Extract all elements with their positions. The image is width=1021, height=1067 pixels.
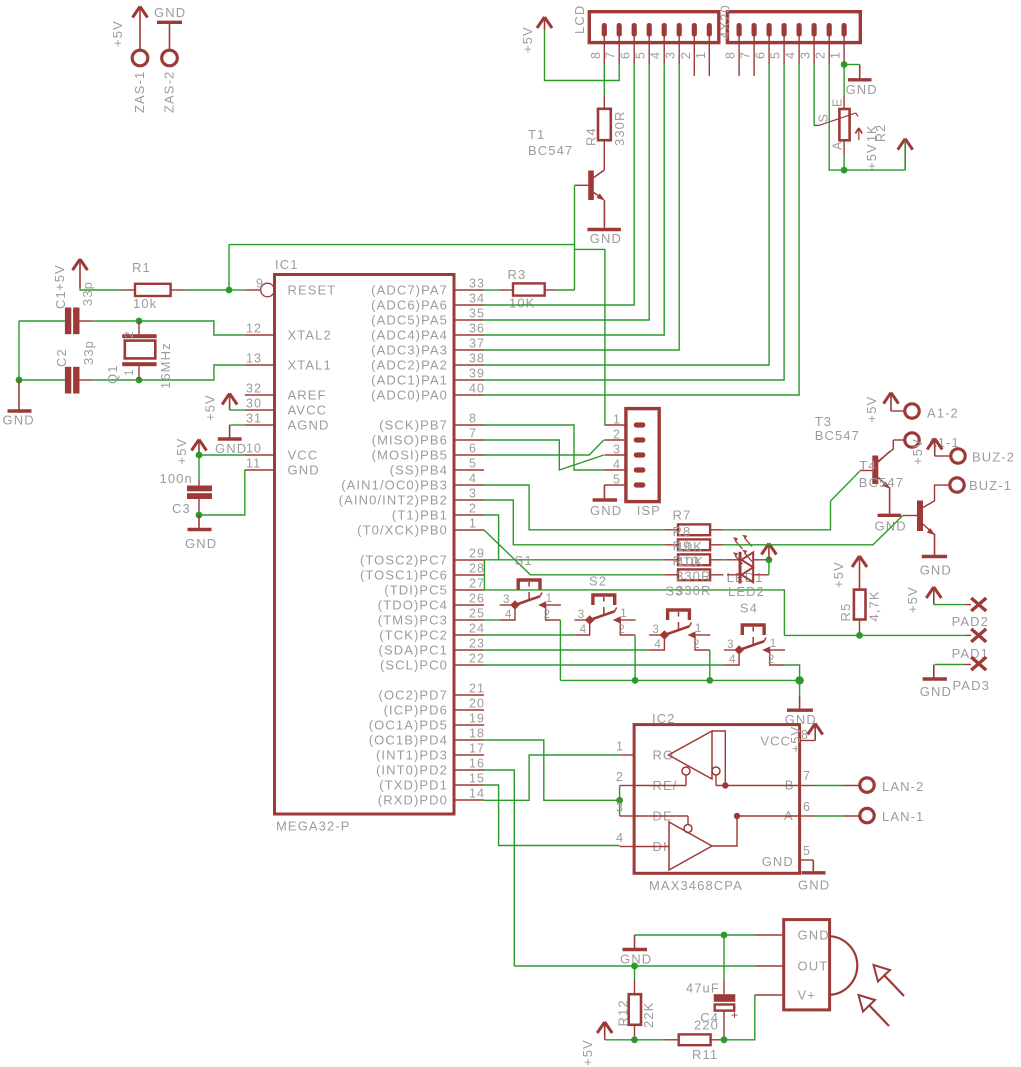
pad ZAS-1 xyxy=(132,50,148,66)
LED LED1 xyxy=(727,559,739,561)
svg-text:E: E xyxy=(831,98,845,107)
wire AVCC xyxy=(230,409,245,411)
svg-text:1: 1 xyxy=(469,517,477,531)
svg-text:(T0/XCK)PB0: (T0/XCK)PB0 xyxy=(357,523,448,538)
resistor R4 330R xyxy=(603,96,605,109)
wire C3 to GND pin 11 xyxy=(196,512,203,519)
svg-text:25: 25 xyxy=(469,607,485,621)
svg-text:8: 8 xyxy=(724,51,738,59)
svg-text:MAX3468CPA: MAX3468CPA xyxy=(649,878,743,893)
svg-text:3: 3 xyxy=(469,487,477,501)
resistor R10 xyxy=(665,574,678,576)
svg-text:14: 14 xyxy=(469,787,485,801)
svg-text:30: 30 xyxy=(246,397,262,411)
power +5V symbol (R1) xyxy=(73,259,88,270)
svg-text:1: 1 xyxy=(694,51,708,59)
svg-text:5: 5 xyxy=(634,51,648,59)
svg-text:4: 4 xyxy=(654,639,662,651)
ground GND (IC2 pin5) xyxy=(812,860,814,871)
wire LCD pin1 to node xyxy=(841,61,848,68)
svg-text:8: 8 xyxy=(589,51,603,59)
svg-text:GND: GND xyxy=(762,854,794,869)
svg-text:(RXD)PD0: (RXD)PD0 xyxy=(378,793,448,808)
svg-text:31: 31 xyxy=(246,412,262,426)
IC2 pin 7 B xyxy=(800,785,814,787)
svg-text:(AIN1/OC0)PB3: (AIN1/OC0)PB3 xyxy=(341,478,448,493)
IC1 pin 27 (TDI)PC5 xyxy=(454,589,484,591)
IC1 pin 29 (TOSC2)PC7 xyxy=(454,559,484,561)
ISP pin 5 xyxy=(604,484,626,486)
svg-text:GND: GND xyxy=(798,928,830,943)
svg-text:GND: GND xyxy=(875,519,907,534)
wire R9 to LED1 xyxy=(723,559,727,561)
IC1 pin 20 (ICP)PD6 xyxy=(454,709,484,711)
svg-text:(ADC6)PA6: (ADC6)PA6 xyxy=(371,298,448,313)
LCD pin 4 (left group) xyxy=(662,23,667,37)
svg-text:2: 2 xyxy=(544,609,552,621)
svg-text:12: 12 xyxy=(246,322,262,336)
svg-text:35: 35 xyxy=(469,307,485,321)
IC1 pin 30 AVCC xyxy=(245,409,275,411)
svg-text:MEGA32-P: MEGA32-P xyxy=(276,819,351,834)
svg-text:29: 29 xyxy=(469,547,485,561)
svg-text:7: 7 xyxy=(739,51,753,59)
node LED junction with +5V xyxy=(766,556,773,563)
svg-text:2: 2 xyxy=(679,51,693,59)
svg-text:PAD2: PAD2 xyxy=(952,614,989,629)
svg-text:(AIN0/INT2)PB2: (AIN0/INT2)PB2 xyxy=(339,493,448,508)
svg-text:C2: C2 xyxy=(54,348,69,367)
wire PB2 to R8 xyxy=(484,500,665,545)
svg-text:+5V: +5V xyxy=(520,26,535,53)
svg-text:(ADC4)PA4: (ADC4)PA4 xyxy=(371,328,448,343)
svg-text:3: 3 xyxy=(664,51,678,59)
LCD pin 1 (right group) xyxy=(842,23,847,37)
svg-text:3: 3 xyxy=(799,51,813,59)
svg-text:(ADC5)PA5: (ADC5)PA5 xyxy=(371,313,448,328)
svg-text:2: 2 xyxy=(814,51,828,59)
svg-text:T1: T1 xyxy=(528,127,545,142)
LCD pin 5 (left group) xyxy=(647,23,652,37)
LCD pin 5 (right group) xyxy=(782,23,787,37)
svg-text:OUT: OUT xyxy=(798,959,829,974)
IR receiver module body xyxy=(755,934,784,936)
svg-text:+5V: +5V xyxy=(864,143,879,170)
svg-text:(TOSC1)PC6: (TOSC1)PC6 xyxy=(360,568,448,583)
IC1 pin 10 VCC xyxy=(245,454,275,456)
LCD pin 2 (left group) xyxy=(692,23,697,37)
svg-text:ISP: ISP xyxy=(637,503,661,518)
svg-text:A1-2: A1-2 xyxy=(927,406,959,421)
svg-text:2: 2 xyxy=(124,331,136,339)
wire R3 to RESET net xyxy=(556,289,575,291)
wire to V+ pin xyxy=(724,995,755,1040)
trimmer R2 1k xyxy=(843,96,845,109)
svg-text:3: 3 xyxy=(616,801,624,815)
svg-text:4X20: 4X20 xyxy=(718,4,733,39)
svg-text:(SDA)PC1: (SDA)PC1 xyxy=(379,643,448,658)
svg-text:XTAL1: XTAL1 xyxy=(288,358,332,373)
transistor T1 BC547 xyxy=(588,171,594,201)
svg-text:1: 1 xyxy=(124,369,136,377)
pad PAD2 with +5V xyxy=(926,587,941,598)
resistor R7 xyxy=(665,529,678,531)
wire PD1 to DI xyxy=(484,785,620,846)
svg-text:(SCL)PC0: (SCL)PC0 xyxy=(380,658,448,673)
svg-text:GND: GND xyxy=(798,878,830,893)
wire PA row 395 to LCD right group xyxy=(484,64,799,395)
svg-text:5: 5 xyxy=(469,457,477,471)
wire PD0 to RO xyxy=(484,755,620,800)
svg-text:4: 4 xyxy=(613,458,621,472)
svg-text:15: 15 xyxy=(469,772,485,786)
wire LCD pin1 to R2 top (E) xyxy=(843,65,845,96)
svg-text:(TOSC2)PC7: (TOSC2)PC7 xyxy=(360,553,448,568)
svg-text:R12: R12 xyxy=(616,999,631,1026)
wire PA row 365 to LCD right group xyxy=(484,64,769,365)
svg-text:(TDO)PC4: (TDO)PC4 xyxy=(378,598,448,613)
crystal Q1 16MHz xyxy=(138,321,140,334)
svg-text:+5V: +5V xyxy=(788,726,803,753)
IC IC2 MAX3468CPA body xyxy=(634,725,800,874)
ISP pin 1 xyxy=(604,424,626,426)
IR LED arrow 2 xyxy=(859,995,876,1012)
svg-text:V+: V+ xyxy=(798,988,816,1003)
pad BUZ-1 xyxy=(950,478,964,492)
svg-text:(INT1)PD3: (INT1)PD3 xyxy=(376,748,448,763)
svg-text:GND: GND xyxy=(590,503,622,518)
resistor R5 4.7k xyxy=(852,556,867,567)
svg-text:22: 22 xyxy=(469,652,485,666)
svg-text:(INT0)PD2: (INT0)PD2 xyxy=(376,763,448,778)
svg-text:2: 2 xyxy=(768,654,776,666)
svg-text:4: 4 xyxy=(616,831,624,845)
svg-text:LAN-1: LAN-1 xyxy=(882,809,924,824)
svg-text:+5V: +5V xyxy=(831,561,846,588)
svg-text:1: 1 xyxy=(620,608,628,620)
IC2 receiver amp xyxy=(669,731,713,779)
wire PB1 to R9 row xyxy=(484,515,499,560)
svg-text:+5V: +5V xyxy=(905,586,920,613)
IC1 pin 26 (TDO)PC4 xyxy=(454,604,484,606)
wire R2 bottom A to +5V rail xyxy=(843,140,845,155)
svg-text:34: 34 xyxy=(469,292,485,306)
svg-text:24: 24 xyxy=(469,622,485,636)
svg-text:GND: GND xyxy=(590,231,622,246)
wire C2 left rail xyxy=(19,321,65,380)
LCD pin 6 (left group) xyxy=(632,23,637,37)
svg-text:27: 27 xyxy=(469,577,485,591)
svg-text:10K: 10K xyxy=(509,296,535,311)
wire PC1 to S4 xyxy=(484,664,724,666)
wire IR GND rail xyxy=(635,934,755,936)
svg-text:GND: GND xyxy=(185,536,217,551)
svg-text:10k: 10k xyxy=(133,296,157,311)
svg-text:+5V: +5V xyxy=(203,394,218,421)
svg-text:(SCK)PB7: (SCK)PB7 xyxy=(379,418,448,433)
wire IR OUT rail xyxy=(514,965,755,967)
LCD pin 6 (right group) xyxy=(767,23,772,37)
svg-text:(ADC2)PA2: (ADC2)PA2 xyxy=(371,358,448,373)
IC1 pin 6 (MOSI)PB5 xyxy=(454,454,484,456)
LED LED2 xyxy=(727,574,739,576)
svg-text:LAN-2: LAN-2 xyxy=(882,779,924,794)
svg-text:LED2: LED2 xyxy=(728,584,765,599)
svg-text:ZAS-1: ZAS-1 xyxy=(132,71,147,113)
svg-text:1: 1 xyxy=(546,593,554,605)
ground GND (crystal rail) xyxy=(18,380,20,410)
svg-text:4: 4 xyxy=(580,624,588,636)
svg-text:6: 6 xyxy=(469,442,477,456)
svg-text:5: 5 xyxy=(613,473,621,487)
svg-text:6: 6 xyxy=(754,51,768,59)
svg-text:2: 2 xyxy=(616,770,624,784)
IC1 pin 39 (ADC1)PA1 xyxy=(454,379,484,381)
svg-text:(OC1A)PD5: (OC1A)PD5 xyxy=(369,718,448,733)
svg-text:R5: R5 xyxy=(838,603,853,622)
svg-text:(MISO)PB6: (MISO)PB6 xyxy=(372,433,448,448)
svg-text:R3: R3 xyxy=(508,267,527,282)
LCD pin 8 (left group) xyxy=(602,23,607,37)
svg-text:GND: GND xyxy=(3,413,35,428)
svg-text:BUZ-2: BUZ-2 xyxy=(972,450,1015,465)
svg-text:4: 4 xyxy=(649,51,663,59)
LCD pin 7 (right group) xyxy=(752,23,757,37)
svg-text:(OC1B)PD4: (OC1B)PD4 xyxy=(369,733,448,748)
IC1 pin 38 (ADC2)PA2 xyxy=(454,364,484,366)
IC2 driver amp xyxy=(669,822,712,870)
pad ZAS-2 xyxy=(162,50,178,66)
svg-text:R11: R11 xyxy=(692,1047,718,1062)
svg-text:39: 39 xyxy=(469,367,485,381)
wire PD4 to RE/DE xyxy=(484,740,620,800)
svg-text:7: 7 xyxy=(803,769,811,783)
power +5V symbol (R2 rail) xyxy=(898,139,913,150)
ISP pin 3 xyxy=(604,454,626,456)
IC1 pin 34 (ADC6)PA6 xyxy=(454,304,484,306)
resistor R9 xyxy=(665,559,678,561)
IC1 pin 2 (T1)PB1 xyxy=(454,514,484,516)
svg-text:4: 4 xyxy=(469,472,477,486)
svg-text:BC547: BC547 xyxy=(859,475,904,490)
IC1 pin 7 (MISO)PB6 xyxy=(454,439,484,441)
ground GND (ISP pin5) xyxy=(603,485,605,499)
ground GND (T3 emitter) xyxy=(889,487,891,514)
IC U1 IC1 MEGA32-P body xyxy=(275,275,455,815)
wire R5 to PAD1 row xyxy=(784,634,964,636)
svg-text:1: 1 xyxy=(829,51,843,59)
LCD pin 2 (right group) xyxy=(827,23,832,37)
IC1 pin 35 (ADC5)PA5 xyxy=(454,319,484,321)
svg-text:7: 7 xyxy=(604,51,618,59)
svg-text:+5V: +5V xyxy=(52,264,67,291)
svg-text:5: 5 xyxy=(803,844,811,858)
svg-text:20: 20 xyxy=(469,697,485,711)
svg-text:+5V: +5V xyxy=(864,396,879,423)
wire switch common bus xyxy=(559,620,561,680)
svg-text:S2: S2 xyxy=(589,574,607,589)
switch S4 xyxy=(742,625,764,635)
svg-text:(T1)PB1: (T1)PB1 xyxy=(392,508,448,523)
wire PA row 320 to LCD left group xyxy=(484,64,649,320)
capacitor C3 100n xyxy=(198,455,200,480)
svg-text:R8: R8 xyxy=(673,524,692,539)
svg-text:33: 33 xyxy=(469,277,485,291)
svg-text:A: A xyxy=(831,141,845,150)
svg-text:4: 4 xyxy=(729,654,737,666)
LCD pin 8 (right group) xyxy=(737,23,742,37)
IC1 pin 5 (SS)PB4 xyxy=(454,469,484,471)
svg-text:GND: GND xyxy=(846,82,878,97)
svg-text:37: 37 xyxy=(469,337,485,351)
svg-text:36: 36 xyxy=(469,322,485,336)
wire net RESET (T1 base / R1 / R3 / ISP-1) xyxy=(574,185,576,290)
svg-text:C1: C1 xyxy=(53,290,68,309)
svg-text:(TCK)PC2: (TCK)PC2 xyxy=(379,628,448,643)
svg-text:BUZ-1: BUZ-1 xyxy=(969,478,1012,493)
IC1 pin 19 (OC1A)PD5 xyxy=(454,724,484,726)
svg-text:7: 7 xyxy=(469,427,477,441)
wire PC3 to S2 xyxy=(484,634,574,636)
ground GND (switch bus) xyxy=(799,680,801,695)
svg-text:4: 4 xyxy=(784,51,798,59)
svg-text:ZAS-2: ZAS-2 xyxy=(162,71,177,113)
svg-text:VCC: VCC xyxy=(760,734,791,749)
svg-text:100n: 100n xyxy=(160,471,193,486)
svg-text:26: 26 xyxy=(469,592,485,606)
ground GND (IR) xyxy=(634,935,636,948)
svg-text:16MHz: 16MHz xyxy=(158,342,173,389)
ground GND (ZAS-2) xyxy=(157,21,182,24)
IC1 pin 36 (ADC4)PA4 xyxy=(454,334,484,336)
svg-text:19: 19 xyxy=(469,712,485,726)
ground GND (T4 emitter) xyxy=(934,534,936,556)
pad PAD1 xyxy=(965,634,971,636)
svg-text:LCD: LCD xyxy=(572,5,587,34)
svg-text:220: 220 xyxy=(694,1018,719,1033)
wire C1 right to XTAL2 xyxy=(80,320,95,322)
IC1 pin 24 (TCK)PC2 xyxy=(454,634,484,636)
svg-text:330R: 330R xyxy=(676,569,711,584)
wire PA7 to R3 xyxy=(484,289,499,291)
svg-text:(ADC3)PA3: (ADC3)PA3 xyxy=(371,343,448,358)
svg-text:33p: 33p xyxy=(80,281,95,306)
svg-text:Q1: Q1 xyxy=(105,364,120,384)
IC1 pin 1 (T0/XCK)PB0 xyxy=(454,529,484,531)
wire C2 right to XTAL1 xyxy=(80,379,95,381)
wire +5V to R1 xyxy=(80,287,122,290)
power +5V symbol (LCD supply) xyxy=(537,17,552,28)
wire PA row 350 to LCD left group xyxy=(484,64,679,350)
svg-text:+5V: +5V xyxy=(110,20,125,47)
IC1 pin 15 (TXD)PD1 xyxy=(454,784,484,786)
IC1 pin 31 AGND xyxy=(245,424,275,426)
svg-text:32: 32 xyxy=(246,382,262,396)
svg-text:S4: S4 xyxy=(740,601,758,616)
svg-text:C3: C3 xyxy=(172,501,191,516)
LCD pin 4 (right group) xyxy=(797,23,802,37)
svg-text:(TDI)PC5: (TDI)PC5 xyxy=(384,583,448,598)
svg-text:GND: GND xyxy=(154,5,186,20)
svg-text:T4: T4 xyxy=(859,458,876,473)
svg-text:2: 2 xyxy=(469,502,477,516)
LCD pin 1 (left group) xyxy=(707,23,712,37)
wire PD2 to IR OUT xyxy=(484,770,514,966)
IC1 pin 11 GND xyxy=(245,469,275,471)
svg-text:17: 17 xyxy=(469,742,485,756)
wire LCD pin8 to R4 xyxy=(603,64,605,95)
svg-text:3: 3 xyxy=(503,594,511,606)
svg-text:330R: 330R xyxy=(676,583,711,598)
ground GND (C3) xyxy=(198,515,200,529)
wire R8 to T4 base xyxy=(723,516,902,545)
wire PB3 to R7 xyxy=(484,485,665,530)
wire PC5 to PAD1 net xyxy=(484,590,784,636)
IC1 pin 4 (AIN1/OC0)PB3 xyxy=(454,484,484,486)
wire T1 base xyxy=(575,184,589,186)
IC2 pin 2 RE/ xyxy=(620,785,635,787)
IC1 pin 9 RESET xyxy=(245,289,261,291)
resistor R3 10K xyxy=(499,289,513,291)
svg-text:38: 38 xyxy=(469,352,485,366)
svg-text:8: 8 xyxy=(469,412,477,426)
svg-text:R4: R4 xyxy=(584,127,599,146)
svg-text:13: 13 xyxy=(246,352,262,366)
svg-text:RO: RO xyxy=(653,748,675,763)
IC1 pin 21 (OC2)PD7 xyxy=(454,694,484,696)
IC2 pin 8 VCC xyxy=(800,740,816,742)
svg-text:GND: GND xyxy=(288,463,320,478)
power +5V symbol (AVCC) xyxy=(222,394,237,405)
IC1 pin 25 (TMS)PC3 xyxy=(454,619,484,621)
svg-text:RESET: RESET xyxy=(288,283,337,298)
transistor T4 BC547 xyxy=(903,515,917,517)
svg-text:33p: 33p xyxy=(81,340,96,365)
wire PC2 to S3 xyxy=(484,649,649,651)
svg-text:1: 1 xyxy=(695,623,703,635)
svg-text:BC547: BC547 xyxy=(815,428,860,443)
ground GND (T1 emitter) xyxy=(603,200,605,228)
IC1 pin 14 (RXD)PD0 xyxy=(454,799,484,801)
resistor R8 xyxy=(665,544,678,546)
wire PC4 to S1 xyxy=(484,619,500,621)
svg-text:23: 23 xyxy=(469,637,485,651)
svg-text:T3: T3 xyxy=(815,414,832,429)
IC2 pin 5 GND xyxy=(800,859,814,861)
svg-text:9: 9 xyxy=(256,277,264,291)
IC2 pin 4 DI xyxy=(620,846,635,848)
svg-text:(SS)PB4: (SS)PB4 xyxy=(390,463,448,478)
svg-text:40: 40 xyxy=(469,382,485,396)
svg-text:R7: R7 xyxy=(673,508,692,523)
wire PB0 diagonal to R10 row xyxy=(484,530,665,575)
svg-text:AVCC: AVCC xyxy=(288,403,328,418)
power +5V symbol (VCC) xyxy=(192,440,207,451)
svg-text:47uF: 47uF xyxy=(686,981,720,996)
svg-text:(ADC1)PA1: (ADC1)PA1 xyxy=(371,373,448,388)
svg-text:+5V: +5V xyxy=(580,1039,595,1066)
svg-text:AGND: AGND xyxy=(288,418,330,433)
svg-text:S1: S1 xyxy=(515,553,533,568)
svg-text:1: 1 xyxy=(770,638,778,650)
svg-text:VCC: VCC xyxy=(288,448,319,463)
svg-text:(TMS)PC3: (TMS)PC3 xyxy=(378,613,448,628)
svg-text:(MOSI)PB5: (MOSI)PB5 xyxy=(372,448,448,463)
svg-text:R1: R1 xyxy=(132,260,151,275)
svg-text:XTAL2: XTAL2 xyxy=(288,328,332,343)
svg-text:GND: GND xyxy=(215,441,247,456)
IC1 pin 3 (AIN0/INT2)PB2 xyxy=(454,499,484,501)
